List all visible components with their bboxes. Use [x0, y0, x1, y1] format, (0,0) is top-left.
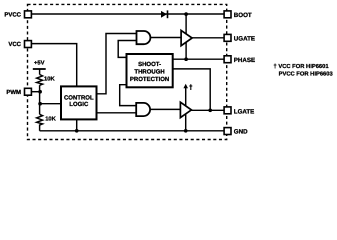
resistor R2 10K lower: [37, 114, 43, 125]
wire junction to control logic input: [40, 103, 60, 105]
wire upper driver to UGATE: [192, 37, 225, 39]
node PWM divider junction: [38, 90, 42, 94]
wire lower driver to LGATE: [192, 109, 225, 111]
wire upper driver bottom to PHASE line: [185, 42, 187, 59]
wire control logic out2 to bottom AND input2: [98, 112, 137, 114]
svg-text:UGATE: UGATE: [234, 36, 255, 43]
wire LGATE feedback to shoot-through: [173, 69, 210, 110]
svg-text:10K: 10K: [45, 116, 56, 123]
pin GND: [224, 128, 231, 135]
wire divider vertical: [39, 85, 41, 114]
wire shoot-through to PHASE pin: [173, 58, 224, 60]
node ground rail junction (driver): [184, 129, 188, 133]
wire top AND output to upper driver: [150, 37, 181, 39]
shoot-through protection box: [127, 54, 173, 87]
wire lower driver bottom to ground rail: [185, 114, 187, 131]
svg-text:LGATE: LGATE: [234, 109, 255, 116]
svg-text:THROUGH: THROUGH: [134, 68, 164, 75]
svg-text:+5V: +5V: [34, 61, 45, 67]
node LGATE junction: [208, 108, 212, 112]
wire bottom AND output to lower driver: [150, 108, 181, 110]
pin BOOT: [224, 11, 231, 18]
pin PWM: [25, 88, 32, 95]
wire VCC to control logic top: [31, 44, 76, 86]
node control input junction: [38, 102, 42, 106]
op-amp lower gate driver: [180, 102, 191, 117]
wire ground rail: [40, 130, 225, 132]
svg-text:PROTECTION: PROTECTION: [130, 76, 169, 83]
node BOOT junction: [184, 12, 188, 16]
wire shoot-through to top AND input2: [118, 41, 136, 58]
AND gate upper: [137, 31, 151, 44]
svg-text:VCC: VCC: [8, 41, 21, 48]
svg-text:† VCC FOR HIP6601: † VCC FOR HIP6601: [274, 63, 330, 70]
wire PVCC to diode to BOOT: [31, 13, 224, 15]
arrowhead lower driver supply: [183, 84, 188, 89]
svg-text:SHOOT-: SHOOT-: [138, 61, 161, 68]
node PHASE junction: [184, 57, 188, 61]
wire lower resistor to ground rail: [39, 124, 41, 130]
svg-text:PWM: PWM: [6, 89, 21, 96]
pin VCC: [25, 41, 32, 48]
wire BOOT rail to upper driver top: [185, 14, 187, 34]
pin UGATE: [224, 34, 231, 41]
svg-text:PVCC: PVCC: [4, 11, 21, 18]
svg-text:GND: GND: [234, 129, 248, 136]
pin LGATE: [224, 107, 231, 114]
pin PVCC: [25, 11, 32, 18]
svg-text:PHASE: PHASE: [234, 57, 255, 64]
AND gate lower: [136, 103, 150, 116]
wire +5V supply stem: [39, 70, 41, 75]
wire control logic bottom to ground rail: [76, 120, 78, 131]
svg-text:10K: 10K: [44, 75, 55, 82]
wire shoot-through to bottom AND input1: [120, 85, 137, 106]
label dagger at lower driver supply: [190, 84, 192, 90]
svg-text:PVCC FOR HIP6603: PVCC FOR HIP6603: [279, 71, 334, 78]
+5V supply bar: [33, 68, 46, 70]
svg-text:CONTROL: CONTROL: [64, 94, 94, 101]
pin PHASE: [224, 56, 231, 63]
wire control logic out1 to top AND input1: [98, 34, 137, 94]
wire lower driver supply with arrow: [185, 87, 187, 106]
IC dashed boundary: [28, 4, 227, 139]
svg-text:BOOT: BOOT: [234, 12, 252, 19]
control logic box: [61, 86, 97, 119]
wire PWM to divider junction: [32, 91, 40, 93]
op-amp upper gate driver: [181, 30, 192, 45]
node ground rail junction (control logic): [75, 129, 79, 133]
diode D1 bootstrap: [161, 11, 167, 18]
svg-text:LOGIC: LOGIC: [69, 101, 89, 108]
resistor R1 10K upper: [37, 75, 43, 86]
